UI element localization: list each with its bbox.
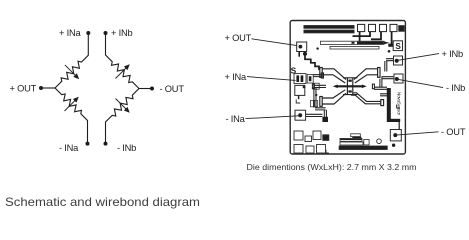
bowtie NW band — [322, 69, 346, 83]
die outline — [290, 21, 405, 155]
node +INb terminal dot — [104, 31, 108, 35]
svg-text:- OUT: - OUT — [441, 127, 466, 137]
pad +INa side cell mark — [309, 76, 312, 81]
mid left pad — [295, 85, 305, 95]
lower left dark cell — [323, 135, 329, 141]
resistor strip bar B — [330, 46, 379, 49]
metal bar top 1 — [304, 26, 354, 29]
pad row square 1 — [358, 24, 365, 31]
bowtie left cap upper — [320, 68, 322, 78]
callout line -INa — [246, 116, 299, 119]
band into bar mid — [380, 94, 387, 96]
L mark bottom cluster — [326, 150, 329, 153]
svg-text:Schematic and wirebond diagram: Schematic and wirebond diagram — [5, 196, 200, 209]
stub below +OUT pad — [298, 52, 300, 57]
stepped trace to bowtie NW — [305, 54, 319, 70]
pad +INa probe mark 1 — [296, 75, 299, 82]
H pattern cell 1 — [310, 100, 313, 106]
bowtie right cap upper — [378, 68, 380, 78]
via dot left — [316, 47, 318, 49]
callout line +INa — [247, 77, 296, 81]
stub below mid pad — [298, 95, 300, 99]
corner dark square — [399, 26, 404, 32]
wire -INb branch with resistor R4 — [106, 89, 140, 144]
svg-text:S: S — [395, 42, 401, 51]
svg-text:+ OUT: + OUT — [225, 33, 252, 43]
trace from pad 3 — [371, 32, 381, 40]
trace +INb horizontal — [386, 59, 393, 61]
svg-text:Die dimentions (WxLxH): 2.7 mm: Die dimentions (WxLxH): 2.7 mm X 3.2 mm — [247, 162, 417, 172]
arrow of resistor R2 — [65, 101, 76, 112]
node +INa terminal dot — [86, 31, 90, 35]
center arrow bar — [336, 85, 364, 87]
via dot right — [388, 50, 391, 53]
NOVA bar — [387, 88, 391, 119]
bond dot -INa — [298, 113, 302, 117]
wire -OUT stub — [139, 88, 152, 90]
svg-text:+ INb: + INb — [111, 28, 133, 38]
bowtie SE band to bar — [351, 93, 381, 104]
svg-text:- INb: - INb — [446, 83, 465, 93]
wire -INa branch with resistor R2 — [55, 88, 88, 144]
lower left cell r1c1 — [294, 131, 303, 140]
small dark bar — [352, 137, 361, 139]
callout line -OUT — [396, 132, 439, 135]
bottom long dark bar — [339, 146, 387, 150]
svg-text:- INb: - INb — [117, 143, 136, 153]
bottom small square — [364, 140, 369, 145]
svg-text:+ INb: + INb — [442, 49, 464, 59]
L mark right — [397, 105, 400, 109]
pad row square 3 — [380, 24, 387, 31]
trace from pad 4 — [391, 32, 393, 44]
wire +OUT stub — [41, 87, 55, 89]
svg-text:- INa: - INa — [59, 143, 79, 153]
center arrow left head — [333, 85, 338, 89]
node +OUT terminal dot — [39, 86, 43, 90]
svg-text:+ INa: + INa — [59, 28, 82, 38]
equal band right of bowtie — [374, 87, 387, 89]
neck inner mark lower — [348, 90, 351, 92]
bottom circle mark — [377, 139, 382, 144]
pad row square 2 — [369, 24, 376, 31]
pad -INa — [295, 110, 306, 120]
horizontal band lower left — [315, 108, 326, 110]
neck inner mark upper — [348, 80, 351, 82]
junction dark square lower left — [322, 117, 328, 122]
pad +INa probe mark 2 — [301, 75, 304, 82]
small bar above bottom group — [351, 134, 361, 137]
wire +INb branch with resistor R3 — [106, 33, 140, 89]
bottom bar outlined 1 — [340, 138, 362, 141]
trace +INa to bowtie — [314, 75, 322, 77]
bond dot -OUT — [393, 133, 397, 137]
pad +INb — [394, 56, 403, 65]
arrow of resistor R3 — [116, 68, 127, 79]
arrow of resistor R1 — [65, 65, 76, 76]
trace from pad 1 — [359, 32, 361, 42]
trace from pad 2 — [353, 32, 371, 36]
callout line +OUT — [252, 39, 298, 46]
pad +INa side cell — [307, 74, 313, 83]
svg-text:- INa: - INa — [226, 114, 246, 124]
trace pad4 foot — [388, 44, 394, 47]
trace +INb down to bowtie — [385, 61, 387, 72]
small cell right of +INa — [313, 83, 319, 89]
node -INa terminal dot — [86, 142, 90, 146]
bowtie NE band — [354, 69, 378, 83]
neck caps — [343, 78, 357, 95]
pad +OUT on die — [297, 42, 307, 52]
equal band left of bowtie — [314, 85, 326, 87]
pad -OUT — [390, 130, 401, 141]
callout line -INb — [397, 79, 443, 87]
S box top right — [393, 41, 402, 51]
H pattern cell 2 — [315, 100, 318, 106]
cap for equal band left — [312, 84, 314, 89]
trace -INb horizontal — [382, 77, 395, 79]
mid left pad corner mark — [303, 86, 305, 88]
resistor strip bar A — [321, 41, 385, 44]
pad -INb — [394, 74, 403, 83]
svg-text:NovaSensor: NovaSensor — [396, 92, 401, 115]
lower left cell r1c2 — [305, 136, 312, 142]
bowtie sensing structure — [320, 68, 384, 107]
bond dot +INb — [395, 59, 399, 63]
resistor strip bar A dark half — [357, 42, 384, 44]
wire +INa branch with resistor R1 — [55, 33, 88, 88]
L mark below mid pad — [296, 99, 300, 103]
strip bar A right wedge — [384, 41, 390, 44]
svg-text:+ INa: + INa — [225, 72, 248, 82]
via blob below +OUT pad — [303, 52, 307, 56]
bowtie left cap lower — [320, 97, 322, 107]
lower left cell r2c3 — [317, 145, 326, 154]
center arrow right head — [362, 85, 367, 89]
via dot mid — [315, 94, 317, 96]
svg-text:+ OUT: + OUT — [10, 83, 37, 93]
svg-text:- OUT: - OUT — [160, 84, 185, 94]
pad +INa outer — [294, 74, 306, 84]
arrow of resistor R4 — [116, 99, 127, 110]
node -OUT terminal dot — [150, 87, 154, 91]
trace -INb down — [380, 77, 382, 88]
callout line +INb — [397, 54, 439, 61]
pad row square 4 — [390, 24, 397, 31]
trace -INa to junction — [306, 114, 323, 116]
bond dot +OUT — [299, 45, 303, 49]
vertical band left — [314, 88, 316, 108]
vertical band 2 lower left — [324, 110, 326, 117]
strip bar A center mark — [352, 42, 355, 44]
lower left cell r2c2 — [306, 146, 314, 153]
bottom bar outlined 2 — [340, 142, 363, 145]
neck vertical lines — [347, 78, 352, 95]
via dot below -OUT — [392, 144, 395, 147]
bowtie SW band — [322, 90, 346, 104]
metal bar top 2 — [304, 30, 354, 33]
node -INb terminal dot — [104, 142, 108, 146]
trace down to -OUT pad — [398, 122, 400, 130]
lower left cell r2c1 — [294, 145, 303, 154]
lower left cell r1c3 — [313, 131, 321, 140]
bar bottom elbow — [387, 119, 400, 122]
cap for equal band right — [372, 84, 374, 89]
bottom bar 1 dark half — [340, 139, 361, 140]
trace cap +INa — [321, 73, 323, 78]
bond dot -INb — [395, 77, 399, 81]
bowtie SE cap — [381, 100, 384, 106]
